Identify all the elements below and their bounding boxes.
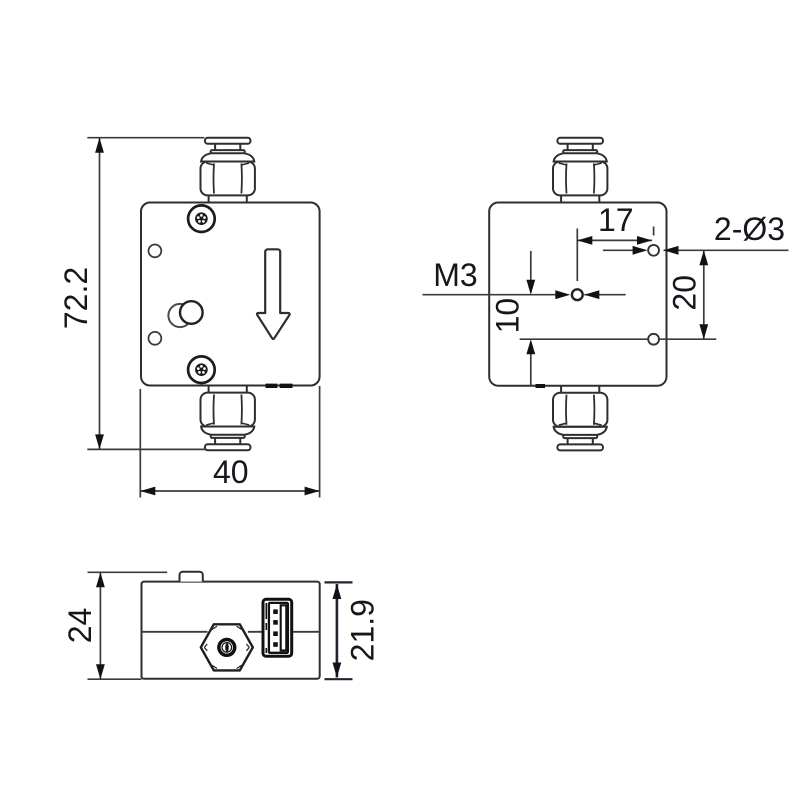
USB pin 1: [273, 609, 278, 614]
dim 24 arrow down: [96, 664, 105, 679]
USB tongue bar: [281, 605, 287, 650]
M3 leader line right: [584, 294, 625, 296]
USB inner frame: [269, 603, 288, 653]
M3 leader arrow right-pointing: [555, 290, 570, 299]
bottom screw: [188, 356, 215, 383]
lower hole reference line: [520, 338, 649, 340]
hex nut chamfer marks: [204, 626, 249, 668]
nut inner hole: [222, 643, 232, 653]
mounting hole top-right: [648, 245, 659, 256]
dim 40 right extension line: [319, 386, 321, 498]
dim 17 arrow left: [577, 236, 592, 245]
dim 21.9 bottom tick: [325, 678, 353, 680]
svg-text:21.9: 21.9: [345, 599, 381, 661]
nut slot: [225, 643, 229, 652]
dim 24 bottom extension line: [88, 678, 142, 680]
2-Ø3 leader right arrow: [664, 246, 679, 255]
hex nut: [201, 624, 253, 670]
USB port outer shell: [263, 599, 292, 656]
top screw: [188, 205, 215, 232]
lever pin front circle: [180, 301, 203, 324]
top push-fit fitting (front): [201, 138, 255, 203]
svg-text:2-Ø3: 2-Ø3: [714, 211, 785, 247]
dim 72.2 arrow down: [95, 434, 104, 449]
USB pin 2: [273, 620, 278, 625]
nut set-screw ring: [219, 640, 235, 656]
small hole lower-left: [149, 332, 162, 345]
svg-text:10: 10: [490, 298, 526, 334]
dim 20 dimension line: [703, 250, 705, 339]
dim 24 arrow up: [96, 572, 105, 587]
svg-text:72.2: 72.2: [58, 267, 94, 329]
top push-fit fitting (back): [553, 138, 607, 203]
USB pin 4: [273, 642, 278, 647]
dim 10 lower line: [530, 352, 532, 386]
bottom push-fit fitting (back): [553, 386, 607, 451]
M3 leader line left: [423, 294, 559, 296]
connector notch on bottom edge (back): [536, 384, 546, 388]
M3 hole: [572, 289, 583, 300]
dim 21.9 top tick: [325, 581, 353, 583]
USB left gap line: [265, 603, 267, 653]
dim 40 arrow left: [140, 487, 155, 496]
2-Ø3 leader left arrow: [633, 246, 648, 255]
lower hole right reference line: [659, 338, 716, 340]
lever pin rear circle: [168, 304, 191, 327]
case parting line: [142, 631, 320, 633]
M3 vertical extension line: [576, 229, 578, 282]
USB pin 3: [273, 631, 278, 636]
M3 leader arrow left-pointing: [584, 290, 599, 299]
dim 17 dimension line: [577, 239, 652, 241]
svg-text:24: 24: [62, 608, 98, 644]
dim 21.9 arrow down: [333, 663, 342, 678]
dim 72.2 bottom extension line: [87, 448, 205, 450]
dim 20 arrow down: [699, 324, 708, 339]
side body: [142, 582, 320, 679]
small hole upper-left: [149, 245, 162, 258]
svg-text:17: 17: [598, 202, 634, 238]
connector notch on bottom edge: [266, 384, 293, 388]
dim 24 top extension line: [88, 571, 168, 573]
svg-text:40: 40: [213, 454, 249, 490]
dim 40 dimension line: [140, 490, 319, 492]
dim 40 left extension line: [139, 389, 141, 498]
dim 40 arrow right: [305, 487, 320, 496]
dim 72.2 top extension line: [87, 137, 204, 139]
dim 10 arrow down: [526, 280, 535, 295]
front body: [141, 203, 320, 386]
2-Ø3 leader right segment: [664, 249, 789, 251]
dim 21.9 dimension line: [336, 584, 339, 678]
dim 20 arrow up: [699, 250, 708, 265]
filament direction arrow: [257, 249, 290, 339]
top bump: [180, 572, 203, 582]
dim 10 arrow up: [526, 339, 535, 354]
2-Ø3 leader left segment: [603, 249, 640, 251]
svg-text:20: 20: [667, 275, 703, 311]
hole extension dash: [653, 227, 655, 236]
bottom push-fit fitting (front): [201, 386, 255, 451]
mounting hole bottom-right: [648, 334, 659, 345]
dim 72.2 arrow up: [95, 138, 104, 153]
dim 24 dimension line: [99, 572, 101, 679]
dim 10 upper line: [530, 251, 532, 281]
dim 17 arrow right: [637, 236, 652, 245]
dim 21.9 arrow up: [333, 584, 342, 599]
back body: [489, 203, 666, 386]
svg-text:M3: M3: [433, 257, 477, 293]
dim 72.2 dimension line: [99, 138, 101, 450]
